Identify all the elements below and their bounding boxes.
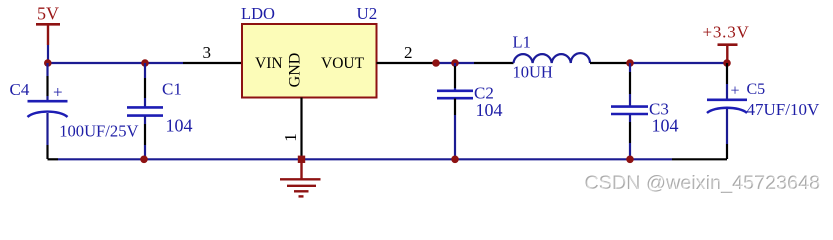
- svg-text:L1: L1: [513, 33, 531, 52]
- svg-text:LDO: LDO: [241, 4, 275, 23]
- capacitor C2: [437, 63, 503, 159]
- capacitor C3: [611, 63, 679, 159]
- svg-text:+: +: [731, 83, 740, 100]
- svg-text:C4: C4: [10, 80, 30, 99]
- svg-text:104: 104: [166, 115, 193, 135]
- svg-text:3: 3: [203, 43, 212, 62]
- node junction C5 top: [723, 59, 731, 67]
- capacitor C5: [707, 63, 820, 159]
- node junction GND: [298, 156, 305, 163]
- svg-text:104: 104: [652, 116, 679, 136]
- regulator U2 (LDO): [241, 4, 377, 98]
- pin 2 of U2: [377, 43, 437, 63]
- svg-text:+3.3V: +3.3V: [703, 23, 750, 42]
- svg-text:C5: C5: [747, 81, 766, 98]
- svg-text:10UH: 10UH: [513, 63, 553, 82]
- svg-text:1: 1: [281, 133, 300, 142]
- svg-text:VIN: VIN: [255, 55, 283, 72]
- svg-text:47UF/10V: 47UF/10V: [747, 100, 820, 119]
- wire top rail left: [48, 62, 184, 64]
- svg-text:+: +: [53, 83, 63, 102]
- svg-text:100UF/25V: 100UF/25V: [59, 122, 138, 141]
- svg-text:104: 104: [476, 100, 503, 120]
- svg-text:5V: 5V: [37, 4, 59, 24]
- svg-text:U2: U2: [357, 4, 378, 23]
- pin 1 of U2: [281, 98, 302, 160]
- svg-text:2: 2: [404, 43, 413, 62]
- capacitor C1: [127, 63, 193, 159]
- capacitor C4: [10, 63, 139, 159]
- svg-text:CSDN @weixin_45723648: CSDN @weixin_45723648: [586, 173, 822, 195]
- svg-text:GND: GND: [287, 53, 304, 88]
- node junction C2 bottom: [451, 156, 459, 164]
- wire 5V stem: [47, 45, 49, 63]
- node junction 5V/C4: [44, 59, 52, 67]
- node junction C2 top: [451, 59, 459, 67]
- wire pin2 to C2: [436, 62, 474, 64]
- node junction pin2: [432, 59, 440, 67]
- power port 5V: [36, 4, 60, 46]
- svg-text:C1: C1: [162, 80, 182, 99]
- node junction C3 top: [626, 59, 634, 67]
- ground: [280, 159, 321, 196]
- power port +3.3V: [703, 23, 750, 62]
- node junction C1 top: [141, 59, 149, 67]
- svg-text:VOUT: VOUT: [321, 55, 365, 72]
- inductor L1: [474, 33, 630, 82]
- node junction C1 bottom: [140, 156, 148, 164]
- watermark: [585, 172, 822, 195]
- pin 3 of U2: [183, 43, 242, 63]
- wire L1 to +3.3V: [630, 62, 727, 64]
- node junction C3 bottom: [626, 156, 634, 164]
- wire bottom rail: [48, 158, 728, 160]
